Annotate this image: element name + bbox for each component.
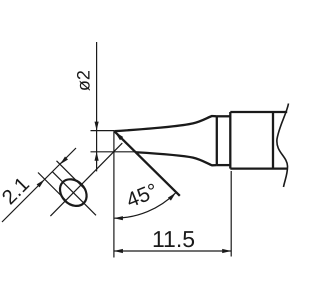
cylinder left edge <box>229 112 231 169</box>
ellipse axis line <box>52 172 96 216</box>
pointer line to face <box>50 143 122 216</box>
cylinder bottom <box>230 167 288 169</box>
cylinder top <box>230 111 287 113</box>
wire bottom extension line for diameter <box>91 151 136 153</box>
step vertical <box>216 116 218 166</box>
svg-text:11.5: 11.5 <box>152 226 195 252</box>
dimension line 11.5 <box>114 250 231 252</box>
arrow 11.5 right <box>222 249 231 253</box>
dim line 2.1 <box>2 148 76 222</box>
extension line E2 <box>57 161 87 191</box>
vertical extension line from tip point <box>113 131 115 257</box>
arrow 2.1 upper <box>60 157 68 165</box>
arrow pointer to apex <box>115 132 124 141</box>
extension line E1 <box>38 173 66 201</box>
arrow 11.5 left <box>114 249 123 253</box>
arrow 2.1 lower <box>37 180 45 188</box>
cylinder joint vertical <box>272 112 274 169</box>
right extension line <box>230 171 232 257</box>
bevel 45 line <box>114 131 180 196</box>
arrow o2 up <box>95 152 99 161</box>
collar bottom <box>217 164 231 166</box>
break S-curve at right <box>277 104 289 188</box>
arc 45 degrees <box>114 193 176 219</box>
dimension line o2 <box>96 42 98 171</box>
arrow arc left end <box>114 216 123 220</box>
bevel face ellipse <box>55 174 92 211</box>
wire top extension line for diameter <box>91 130 115 132</box>
arrow o2 down <box>95 122 99 131</box>
arrow arc bevel end <box>168 193 176 201</box>
tip outline bottom profile <box>135 152 217 165</box>
collar top <box>217 115 231 117</box>
tip outline top profile <box>114 116 217 131</box>
svg-text:2.1: 2.1 <box>0 173 34 209</box>
svg-text:ø2: ø2 <box>73 70 93 91</box>
